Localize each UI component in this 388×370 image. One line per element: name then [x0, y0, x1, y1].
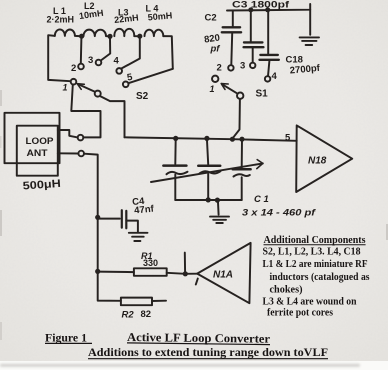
node tap L3/L4 — [137, 34, 142, 39]
node bus/C18 — [265, 7, 270, 12]
svg-text:82: 82 — [141, 309, 152, 320]
svg-text:50mH: 50mH — [147, 10, 172, 22]
wire S1 wiper down to bus — [233, 99, 240, 138]
node tap L1/L2 — [79, 34, 84, 39]
svg-text:4: 4 — [114, 56, 120, 67]
svg-text:C 1: C 1 — [254, 194, 269, 205]
scan noise marks — [0, 90, 2, 106]
svg-text:Additional Components: Additional Components — [264, 234, 366, 246]
switch S1 wiper — [237, 93, 243, 99]
variable capacitor C1 section a — [174, 138, 176, 164]
node tap L2/L3 — [107, 34, 112, 39]
ground (top right) — [300, 37, 319, 45]
node bus/C3 — [248, 7, 253, 12]
wire S2 pole to loop antenna top terminal — [71, 85, 100, 138]
svg-text:ANT: ANT — [27, 148, 48, 159]
svg-text:S1: S1 — [256, 89, 269, 100]
wire left riser to coil bank — [48, 35, 70, 81]
svg-text:1: 1 — [63, 83, 68, 93]
switch S2 contact 3 — [96, 60, 102, 66]
wire node to N1A — [185, 273, 197, 275]
svg-text:3: 3 — [240, 61, 245, 72]
wire top capacitor bus — [227, 4, 310, 11]
resistor R1 — [98, 271, 134, 274]
variable capacitor C1 section b — [207, 138, 208, 164]
caption Figure 1 — [45, 330, 328, 359]
loop antenna outer frame — [5, 113, 60, 163]
svg-text:3 x 14 - 460 pf: 3 x 14 - 460 pf — [242, 207, 316, 218]
capacitor C4 — [98, 218, 120, 220]
switch S1 pole 1 — [212, 76, 218, 82]
svg-text:1: 1 — [210, 84, 215, 94]
node R1 tap — [95, 269, 100, 274]
wire bus down to ground — [309, 10, 311, 35]
svg-text:chokes): chokes) — [270, 283, 303, 295]
wire main tuning bus — [125, 137, 297, 141]
op-amp N1A — [197, 243, 250, 303]
svg-text:Additions to extend tuning ran: Additions to extend tuning range down to… — [88, 345, 328, 359]
switch S2 contact 2 lead — [80, 38, 83, 64]
node bus/S1 — [230, 137, 235, 142]
wire coil top right corner — [163, 36, 173, 69]
node bus/C1a — [173, 136, 178, 141]
svg-text:S2: S2 — [136, 91, 149, 102]
svg-text:LOOP: LOOP — [26, 136, 55, 147]
switch S2 contact 4 — [116, 68, 122, 74]
svg-text:2: 2 — [217, 63, 222, 74]
node C1 bottom — [206, 197, 211, 202]
capacitor C18 — [267, 11, 269, 54]
svg-text:ferrite pot cores: ferrite pot cores — [267, 307, 333, 319]
svg-text:inductors (catalogued as: inductors (catalogued as — [270, 271, 370, 283]
loop antenna inner frame — [17, 126, 58, 176]
node N1A input — [183, 271, 188, 276]
inductor L4 — [144, 30, 163, 36]
svg-text:4: 4 — [272, 71, 278, 82]
svg-text:C2: C2 — [205, 13, 217, 24]
switch S1 contact 2 — [228, 65, 233, 70]
svg-text:5: 5 — [285, 133, 291, 144]
svg-text:pf: pf — [210, 44, 221, 55]
switch S1 contact 3 — [250, 63, 255, 68]
wire S2 wiper down to tuning bus — [100, 96, 124, 137]
switch S2 pole 1 — [71, 79, 77, 85]
capacitor C2 — [232, 11, 234, 26]
wire antenna box to top terminal — [58, 130, 78, 137]
switch S2 contact 3 lead — [101, 39, 111, 61]
svg-text:2·2mH: 2·2mH — [47, 15, 75, 25]
wire antenna box to bottom terminal — [58, 152, 79, 154]
inductor L3 — [114, 29, 137, 36]
ground (below C1) — [217, 200, 220, 215]
wire stub above N1A input — [184, 253, 186, 273]
N1A pin 1 tick — [196, 279, 198, 285]
wire C1 bottom bus — [175, 199, 241, 201]
switch S2 contact 2 — [78, 64, 84, 70]
switch S2 contact 4 lead — [122, 39, 140, 69]
capacitor C3 — [250, 11, 252, 42]
svg-text:Figure 1: Figure 1 — [45, 330, 87, 344]
ground (below C4) — [129, 233, 148, 241]
switch S2 contact 5 — [123, 82, 129, 88]
loop antenna terminal bottom — [78, 151, 84, 157]
switch S1 contact 4 — [265, 76, 270, 81]
wire bottom terminal down the left rail — [84, 154, 121, 301]
variable capacitor C1 section c — [241, 139, 243, 167]
op-amp N18 — [296, 125, 352, 192]
svg-text:C3 1800pf: C3 1800pf — [232, 0, 290, 10]
svg-text:L1 & L2 are miniature RF: L1 & L2 are miniature RF — [263, 258, 368, 270]
inductor L1 — [55, 29, 79, 36]
inductor L2 — [84, 30, 108, 37]
svg-text:3: 3 — [88, 55, 93, 66]
svg-text:S2, L1, L2, L3. L4, C18: S2, L1, L2, L3. L4, C18 — [263, 246, 362, 258]
switch S2 wiper — [95, 91, 101, 97]
svg-text:N1A: N1A — [213, 270, 233, 281]
scan shadow at bottom edge — [0, 364, 360, 367]
svg-text:330: 330 — [143, 258, 158, 268]
svg-text:N18: N18 — [308, 156, 327, 167]
loop antenna terminal top — [78, 135, 84, 141]
wire diagonal to contact 5 — [128, 69, 172, 83]
resistor R2 — [121, 298, 152, 306]
C1 gang arrow — [151, 163, 263, 182]
node bus/C1c — [239, 137, 244, 142]
node C1 bottom ground — [215, 198, 220, 203]
capacitor C4 junction node — [95, 215, 100, 220]
svg-text:R2: R2 — [122, 310, 135, 321]
svg-text:47nf: 47nf — [134, 203, 155, 216]
node bus/C1b — [204, 136, 209, 141]
svg-text:2: 2 — [71, 63, 76, 74]
